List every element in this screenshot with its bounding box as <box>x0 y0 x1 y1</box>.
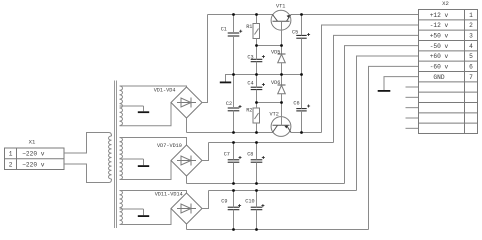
wire +rail bridge2 <box>209 142 334 144</box>
junction R1/+rail <box>255 13 258 16</box>
transistor VT2 <box>271 117 291 137</box>
transformer primary winding <box>109 133 112 137</box>
svg-text:1: 1 <box>469 12 473 19</box>
junction VD5 base <box>280 44 283 47</box>
wire C8 stubs <box>256 143 258 160</box>
svg-text:1: 1 <box>9 151 13 158</box>
capacitor C3 <box>251 58 263 60</box>
svg-text:X2: X2 <box>442 0 449 7</box>
bridge rectifier VD7-VD10 <box>171 145 202 176</box>
wire -50 riser <box>345 46 419 184</box>
capacitor C8 <box>251 159 263 161</box>
junction C7 bottom <box>232 182 235 185</box>
svg-text:C5: C5 <box>292 29 298 35</box>
wire +60 riser <box>357 56 419 191</box>
wire R1 stubs <box>256 15 258 24</box>
wire R1 to VT1 base <box>257 45 282 47</box>
svg-text:X1: X1 <box>29 138 36 145</box>
ground bus symbol <box>226 75 234 82</box>
svg-text:~220 v: ~220 v <box>22 151 45 158</box>
wire C4 stubs <box>256 75 258 88</box>
wire bridge2 + riser <box>202 143 209 161</box>
svg-text:R2: R2 <box>246 108 252 114</box>
junction C5-C6/bus <box>300 73 303 76</box>
wire W2 bottom to bridge <box>120 161 172 180</box>
wire W3 top to bridge VD11-VD14 <box>120 191 187 194</box>
junction VD6/VT2 base <box>280 101 283 104</box>
connector X1 body <box>5 148 65 170</box>
svg-text:R1: R1 <box>246 24 252 30</box>
wire C2 stubs <box>233 75 235 109</box>
wire W3 center tap <box>120 208 144 210</box>
svg-text:VD1-VD4: VD1-VD4 <box>154 88 176 94</box>
capacitor C10 <box>251 206 263 208</box>
svg-text:~220 v: ~220 v <box>22 162 45 169</box>
svg-text:C6: C6 <box>293 100 299 106</box>
wire bridge2 - drop <box>186 176 188 184</box>
wire -rail bridge2 <box>187 183 345 185</box>
capacitor C5 <box>296 34 306 36</box>
svg-text:C7: C7 <box>224 152 230 158</box>
wire W3 bottom to bridge <box>120 209 172 225</box>
wire X1.1 to primary top <box>64 133 109 154</box>
wire GND row <box>384 77 419 90</box>
svg-text:+60 v: +60 v <box>430 53 449 60</box>
svg-text:VD7-VD10: VD7-VD10 <box>157 143 182 149</box>
wire bridge3 + riser <box>202 191 209 209</box>
X2 pin 12 stub <box>406 127 419 129</box>
wire W2 top to bridge VD7-VD10 <box>120 138 187 146</box>
resistor R2 <box>253 108 260 123</box>
ground W3 tap <box>143 209 145 215</box>
wire VT2 base <box>281 103 283 126</box>
secondary winding W1 <box>120 86 123 126</box>
svg-text:-50 v: -50 v <box>430 43 449 50</box>
svg-text:C1: C1 <box>221 27 227 33</box>
junction C9 bottom <box>232 228 235 231</box>
svg-text:7: 7 <box>469 74 473 81</box>
ground X2 symbol <box>378 90 391 92</box>
svg-text:C2: C2 <box>226 101 232 107</box>
junction C4/R2 node <box>255 101 258 104</box>
wire VT1 base <box>281 21 283 45</box>
wire bridge1 + riser <box>202 15 208 103</box>
wire bridge1 - to raw rail <box>186 118 188 133</box>
resistor R1 <box>253 24 260 39</box>
svg-text:VT1: VT1 <box>276 3 285 9</box>
wire C1 stubs <box>233 15 235 34</box>
capacitor C1 <box>228 32 240 34</box>
X2 pin 11 stub <box>406 117 419 119</box>
wire +50 riser <box>334 35 419 142</box>
capacitor C6 <box>296 108 306 110</box>
wire R2 stubs <box>256 103 258 109</box>
svg-text:4: 4 <box>469 43 473 50</box>
wire ground bus <box>234 74 302 76</box>
wire bridge3 - drop <box>186 224 188 230</box>
wire C3 stubs <box>256 46 258 60</box>
svg-text:C10: C10 <box>245 198 254 204</box>
svg-text:GND: GND <box>433 74 444 81</box>
wire W1 top to bridge VD1-VD4 <box>120 86 187 87</box>
svg-text:3: 3 <box>469 33 473 40</box>
junction C1/+rail <box>232 13 235 16</box>
wire W1 center tap <box>120 105 144 107</box>
wire X1.2 to primary bottom <box>64 164 109 183</box>
diode VD6 <box>281 75 283 86</box>
wire W2 center tap <box>120 158 144 160</box>
wire C9 stubs <box>233 191 235 208</box>
wire -60 riser <box>369 66 419 229</box>
wire VD6 to VT2 base <box>257 102 282 104</box>
connector X2 body <box>419 10 478 134</box>
ground W1 tap <box>143 106 145 111</box>
secondary winding W2 <box>120 138 123 180</box>
wire -12 riser <box>322 25 419 133</box>
svg-text:C4: C4 <box>247 81 253 87</box>
wire C6 stubs <box>301 75 303 109</box>
junction C1-C2/bus <box>232 73 235 76</box>
junction C5/+rail <box>300 13 303 16</box>
junction C9 top <box>232 189 235 192</box>
wire +raw rail <box>208 14 273 16</box>
secondary winding W3 <box>120 191 123 225</box>
bridge rectifier VD1-VD4 <box>171 87 202 118</box>
junction C6/-raw <box>300 131 303 134</box>
svg-text:VT2: VT2 <box>270 111 279 117</box>
junction R1/C3 base <box>255 44 258 47</box>
diode VD5 <box>281 46 283 55</box>
transformer core <box>114 81 116 229</box>
capacitor C7 <box>228 159 240 161</box>
junction C10 top <box>255 189 258 192</box>
bridge rectifier VD11-VD14 <box>171 193 202 224</box>
wire -rail bridge3 <box>187 229 369 231</box>
svg-text:C9: C9 <box>221 198 227 204</box>
junction R2/-raw <box>255 131 258 134</box>
capacitor C2 <box>228 107 240 109</box>
junction C8 bottom <box>255 182 258 185</box>
wire -raw rail <box>187 132 273 134</box>
wire W1 bottom to bridge <box>120 103 172 126</box>
junction C3-C4/bus <box>255 73 258 76</box>
svg-text:2: 2 <box>469 22 473 29</box>
svg-text:5: 5 <box>469 53 473 60</box>
svg-text:6: 6 <box>469 64 473 71</box>
X2 pin 10 stub <box>406 107 419 109</box>
X2 pin 9 stub <box>406 96 419 98</box>
junction C7 top <box>232 141 235 144</box>
svg-text:+12 v: +12 v <box>430 12 449 19</box>
junction C2/-raw <box>232 131 235 134</box>
ground W2 tap <box>143 159 145 165</box>
wire C7 stubs <box>233 143 235 160</box>
svg-text:2: 2 <box>9 162 13 169</box>
X2 pin 8 stub <box>406 86 419 88</box>
wire C10 stubs <box>256 191 258 208</box>
transistor VT1 <box>271 10 291 30</box>
junction C10 bottom <box>255 228 258 231</box>
wire C5 stubs <box>301 15 303 36</box>
svg-text:VD11-VD14: VD11-VD14 <box>155 192 183 198</box>
svg-text:C8: C8 <box>247 152 253 158</box>
capacitor C9 <box>228 206 240 208</box>
junction C8 top <box>255 141 258 144</box>
svg-text:-12 v: -12 v <box>430 22 449 29</box>
svg-text:VD5: VD5 <box>271 50 280 56</box>
svg-text:+50 v: +50 v <box>430 33 449 40</box>
junction VD5-VD6/bus <box>280 73 283 76</box>
svg-text:-60 v: -60 v <box>430 64 449 71</box>
wire +rail bridge3 <box>209 190 357 192</box>
capacitor C4 <box>251 86 263 88</box>
